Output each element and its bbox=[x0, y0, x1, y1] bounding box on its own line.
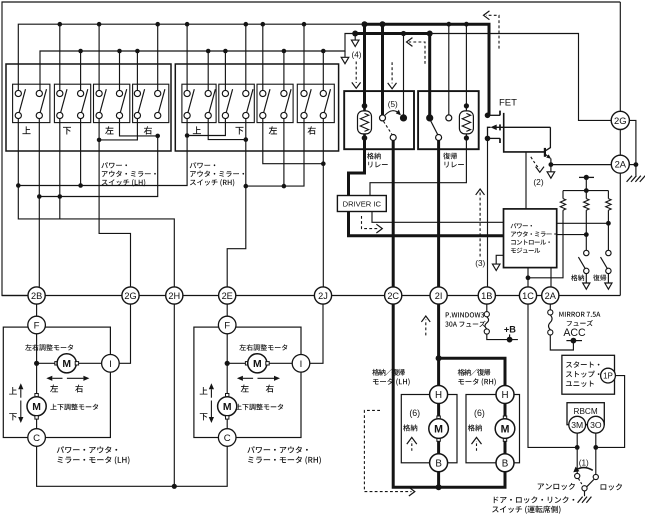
dashed arrow up at 2I bbox=[425, 320, 427, 336]
dashed arrow (4) into storage relay coil bbox=[355, 62, 357, 84]
svg-text:H: H bbox=[501, 390, 508, 401]
dashed flow arrow from DRIVER IC bbox=[362, 216, 379, 229]
label power outer mirror switch (RH) bbox=[190, 162, 216, 168]
wire: row connector down to terminal F (LH) bbox=[36, 304, 38, 316]
dashed arrow into storage relay contact bbox=[391, 62, 393, 83]
FET body arrow bbox=[496, 126, 550, 128]
wire: rail 2 drop at x=208.2 bbox=[207, 51, 209, 91]
label retract bbox=[571, 275, 584, 281]
switch cell 上 box bbox=[182, 84, 216, 122]
dashed arrow (2) bbox=[531, 157, 540, 169]
switch cell 右 box bbox=[133, 84, 169, 122]
motor M1 left terminal (LH) bbox=[55, 362, 58, 365]
svg-text:F: F bbox=[224, 321, 230, 332]
FET source node bbox=[485, 136, 491, 142]
storage relay contact NO (energized) bbox=[400, 114, 407, 121]
connector 2H (row) bbox=[166, 287, 183, 304]
svg-text:1B: 1B bbox=[481, 291, 492, 301]
door lock link switch lock contact bbox=[593, 474, 598, 479]
storage relay blade (dashed alternate position) bbox=[384, 121, 392, 134]
wire: ground link from 2G and 2A bbox=[629, 120, 636, 175]
wire: rail 2 drop at x=283.9 bbox=[283, 51, 285, 91]
switch cell 下 box bbox=[54, 84, 90, 122]
wire: rail 1 drop at x=59.8 bbox=[59, 24, 61, 90]
wire: module bottom to connector 1C bbox=[527, 268, 529, 287]
svg-text:C: C bbox=[33, 433, 40, 444]
wire: thick feed rail2 to return relay NO contact bbox=[428, 34, 431, 115]
wire: right perimeter drop to connector 2G (top) bbox=[619, 2, 621, 111]
svg-text:2I: 2I bbox=[435, 291, 443, 301]
svg-text:2B: 2B bbox=[31, 291, 42, 301]
switch contact pair 右 x=137.4 bbox=[138, 89, 144, 112]
wire: rail 1 drop at x=262.8 bbox=[262, 24, 264, 90]
resistor R3 bbox=[607, 191, 609, 199]
wire: module bottom to connector 2A (row) bbox=[550, 268, 552, 287]
wire: motor LH internal (thick) bbox=[437, 395, 440, 463]
FET channel segments bbox=[488, 114, 501, 116]
svg-text:I: I bbox=[109, 359, 112, 370]
svg-text:M: M bbox=[223, 402, 232, 413]
wire: rail 1 drop at x=304 bbox=[303, 24, 305, 90]
motor M1 right terminal (RH) bbox=[266, 362, 269, 365]
wire: riser from row bus up to connector 2A (top) bbox=[619, 173, 621, 295]
wire: FET body line to transistor collector bbox=[545, 127, 550, 151]
connector 2I (row) bbox=[430, 287, 447, 304]
connector 2E (row) bbox=[219, 287, 236, 304]
motor M2 bottom terminal (RH) bbox=[226, 416, 229, 419]
label 左 bbox=[105, 126, 113, 134]
fuse P.WINDOW3 30A bbox=[485, 317, 489, 329]
terminal F (RH) bbox=[218, 316, 236, 334]
svg-text:1P: 1P bbox=[603, 372, 613, 381]
flow marker below emitter bbox=[550, 165, 552, 172]
wire: connector 2H down to bottom bus bbox=[173, 304, 175, 486]
label power outer mirror motor (LH) bbox=[57, 446, 118, 453]
svg-text:2G: 2G bbox=[614, 115, 627, 126]
power outer mirror switch (LH) outline bbox=[6, 64, 171, 151]
wire: rail 2 thick section over retract relay bbox=[355, 32, 430, 35]
label horizontal adjust motor (LH) bbox=[25, 344, 73, 351]
wire: return relay post down to connector 2I (thick) bbox=[437, 140, 440, 287]
wire: line A / line C - UP-left + DOWN-right common to connector 2H bbox=[18, 119, 174, 287]
door lock blade (lock side) bbox=[587, 480, 594, 487]
svg-text:M: M bbox=[434, 423, 443, 435]
wire: RH DOWN-left jumper to UP-left column bbox=[187, 119, 225, 136]
door lock link switch unlock contact bbox=[575, 473, 580, 478]
svg-text:2G: 2G bbox=[124, 291, 136, 301]
switch contact pair 上 x=39.3 bbox=[40, 89, 46, 112]
storage relay coil L1 bbox=[358, 111, 372, 134]
svg-text:(3): (3) bbox=[475, 259, 485, 268]
RBCM box bbox=[567, 403, 604, 425]
switch contact pair 左 x=283.9 bbox=[285, 89, 291, 112]
wire: connector 2C down and across to motors (thick) bbox=[393, 304, 505, 487]
terminal F (LH) bbox=[28, 316, 46, 334]
dashed arrow into rail1 top right bbox=[486, 15, 499, 48]
return relay contact NO (energized) bbox=[426, 114, 433, 121]
switch cell 左 box bbox=[257, 84, 293, 122]
svg-text:H: H bbox=[435, 390, 442, 401]
label storage relay bbox=[367, 153, 381, 160]
label vertical adjust motor (LH) bbox=[50, 404, 98, 411]
wire: connector 2A row to MIRROR fuse bbox=[549, 304, 551, 310]
motor LH terminal H bbox=[430, 386, 448, 404]
motor M2 top terminal (LH) bbox=[35, 394, 38, 397]
wire: return relay coil to DRIVER IC bbox=[370, 138, 466, 196]
return position switch bbox=[606, 250, 611, 255]
left/right arrows (LH) bbox=[52, 377, 62, 379]
svg-text:FET: FET bbox=[499, 98, 517, 109]
wire: UP-right contact down to connector 2B bbox=[38, 119, 40, 287]
connector 2A (row) bbox=[542, 287, 559, 304]
wire: fuse to +B terminal bbox=[487, 334, 518, 340]
dashed flow arrow bottom left of motors bbox=[364, 410, 411, 491]
svg-text:(5): (5) bbox=[388, 100, 398, 109]
wire: rail 1 drop at x=187.1 bbox=[186, 24, 188, 90]
connector 2B (row) bbox=[28, 287, 45, 304]
connector 1P bbox=[601, 368, 616, 383]
switch cell 上 box bbox=[13, 84, 50, 122]
svg-text:+B: +B bbox=[504, 324, 516, 334]
switch cell 下 box bbox=[219, 84, 255, 122]
motor LH square terminals bbox=[437, 416, 440, 419]
svg-text:2E: 2E bbox=[222, 291, 233, 301]
return relay moving post bbox=[436, 135, 442, 141]
motor RH terminal H bbox=[496, 386, 514, 404]
dashed arrow (3) up to module area bbox=[479, 193, 481, 257]
wire: rail 1 drop at x=99.1 bbox=[98, 24, 100, 90]
terminal I (LH) bbox=[102, 355, 120, 373]
label MIRROR 7.5A fuse bbox=[559, 312, 600, 317]
wire: thick feed to storage relay NC contact bbox=[381, 24, 384, 115]
storage/return motor (LH) box bbox=[401, 395, 457, 463]
label door lock link switch bbox=[494, 496, 575, 503]
label P.WINDOW3 30A fuse bbox=[446, 312, 484, 317]
switch contact pair 下 x=225.4 bbox=[226, 89, 232, 112]
motor M1 left terminal (RH) bbox=[245, 362, 248, 365]
label power outer mirror motor (RH) bbox=[247, 446, 308, 453]
wire: rail 2 (lower common) with drop to switch UP-right bbox=[40, 34, 355, 91]
label storage/return motor (RH) bbox=[458, 369, 491, 376]
wire: connector 1C down to door lock switch bbox=[528, 304, 577, 447]
svg-text:2A: 2A bbox=[545, 291, 557, 301]
svg-text:M: M bbox=[62, 359, 71, 370]
power outer mirror switch (RH) outline bbox=[175, 64, 338, 151]
motor M2 vertical adjust (RH) bbox=[218, 397, 237, 416]
resistor R1 bbox=[562, 191, 564, 199]
svg-text:(4): (4) bbox=[351, 50, 361, 59]
svg-text:(1): (1) bbox=[579, 459, 589, 468]
return relay contact NC bbox=[446, 115, 452, 121]
wire: 3O down to lock contact bbox=[595, 433, 597, 474]
connector 2C (row) bbox=[385, 287, 402, 304]
switch contact pair 上 x=208.2 bbox=[209, 89, 215, 112]
wire: FET source to connector 1B bbox=[487, 138, 489, 287]
storage relay contact NC bbox=[380, 115, 386, 121]
label 下 bbox=[235, 127, 243, 135]
wire: thin feed rail1 to return relay NC contact bbox=[448, 24, 450, 115]
DRIVER IC box bbox=[337, 196, 386, 212]
retract position switch bbox=[584, 250, 589, 255]
switch contact pair 右 x=304 bbox=[305, 89, 311, 112]
door lock link switch pivot bbox=[582, 486, 587, 491]
wire: thin feed rail2 to storage relay NO contact bbox=[403, 34, 405, 115]
door lock switch arrow (1) bbox=[576, 468, 593, 471]
label 右 bbox=[308, 126, 316, 134]
motor M2 top terminal (RH) bbox=[226, 394, 229, 397]
wire: RH mirror-left-R drop to line A-prime bbox=[283, 119, 285, 187]
return relay box bbox=[418, 91, 479, 149]
flow marker at rail2 junction bbox=[354, 34, 356, 40]
label right (RH) bbox=[266, 385, 274, 393]
switch contact pair 右 x=157.7 bbox=[159, 89, 165, 112]
wire: RH UP/DOWN common down, elbow to connector 2E bbox=[227, 119, 246, 287]
label 上 bbox=[22, 126, 30, 134]
label control module bbox=[511, 223, 532, 229]
wire: 2G to 2A link bbox=[619, 130, 621, 156]
label return relay bbox=[443, 153, 457, 160]
wire: M1 to terminal I (RH) bbox=[269, 362, 292, 364]
svg-text:2H: 2H bbox=[168, 291, 180, 301]
svg-text:3M: 3M bbox=[571, 420, 583, 430]
label storage/return motor (LH) bbox=[372, 369, 405, 376]
wire: rail 1 drop at x=157.7 bbox=[157, 24, 159, 90]
label start stop unit bbox=[566, 361, 599, 367]
svg-text:I: I bbox=[300, 359, 303, 370]
connector 1C (row) bbox=[519, 287, 536, 304]
wire: rail 2 drop at x=80.6 bbox=[80, 51, 82, 91]
switch contact pair 左 x=262.8 bbox=[264, 89, 270, 112]
wire: spine to motor M1 (LH) bbox=[37, 362, 58, 364]
switch contact pair 下 x=80.6 bbox=[82, 89, 88, 112]
svg-text:2J: 2J bbox=[318, 291, 328, 301]
wire: FET gate net down to module bbox=[525, 152, 527, 209]
wire: DRIVER IC output to control module (thick) bbox=[349, 212, 504, 236]
door lock blade dashed (unlock side) bbox=[579, 479, 583, 486]
storage/return motor (RH) box bbox=[466, 395, 520, 463]
+B terminal bbox=[509, 334, 511, 339]
switch cell 左 box bbox=[94, 84, 130, 122]
svg-text:F: F bbox=[34, 321, 40, 332]
wire: LH motor B to bottom bus (thick) bbox=[437, 471, 440, 487]
connector 3O bbox=[587, 416, 604, 433]
wire: spine to motor M1 (RH) bbox=[227, 362, 248, 364]
power outer mirror control module box bbox=[504, 209, 557, 268]
wire: fuse to ACC terminal bbox=[550, 335, 573, 350]
label return bbox=[593, 275, 606, 281]
connector 2A (top) bbox=[611, 155, 629, 173]
wire: I elbow up to row connector (LH) bbox=[119, 304, 130, 363]
mirror motor (LH) box bbox=[3, 327, 110, 437]
wire: C (LH) to common bottom bus bbox=[37, 446, 228, 486]
motor M2 bottom terminal (LH) bbox=[35, 416, 38, 419]
wire: rail 2 drop at x=323.3 bbox=[322, 51, 324, 91]
motor LH terminal B bbox=[430, 454, 448, 472]
label lock bbox=[601, 483, 622, 490]
ground (body) bbox=[627, 176, 632, 182]
label retract LH bbox=[403, 424, 417, 431]
mirror motor (RH) box bbox=[194, 327, 301, 437]
return relay coil L2 bbox=[459, 111, 473, 134]
transistor Q1 bar bbox=[544, 148, 546, 157]
up/down arrows (LH) bbox=[20, 389, 22, 397]
storage relay box bbox=[344, 91, 414, 149]
wire: line B - right-R down to bus joining UP-right/DOWN-left bbox=[39, 136, 157, 197]
label unlock bbox=[538, 483, 575, 490]
switch contact pair 上 x=18.3 bbox=[19, 89, 25, 112]
resistor R2 bbox=[585, 191, 587, 199]
label 左 bbox=[269, 126, 277, 134]
flow marker at rail2 corner bbox=[344, 51, 346, 57]
ACC terminal bbox=[566, 340, 582, 342]
label down (LH) bbox=[9, 413, 17, 420]
fuse MIRROR 7.5A bbox=[549, 315, 553, 330]
wire: 3M down to unlock contact bbox=[576, 433, 578, 473]
storage relay moving post bbox=[390, 135, 396, 141]
switch contact pair 下 x=59.8 bbox=[61, 89, 67, 112]
wire: module pin to retract-position switch bbox=[557, 234, 587, 236]
label 下 bbox=[63, 127, 71, 135]
start stop unit box bbox=[562, 355, 615, 394]
svg-text:(2): (2) bbox=[533, 177, 543, 187]
switch cell 右 box bbox=[297, 84, 334, 122]
wire: RH left-L jumper to right-R column bbox=[263, 119, 324, 164]
terminal C (RH) bbox=[218, 429, 236, 447]
ground (door lock switch) bbox=[578, 497, 583, 503]
svg-text:DRIVER IC: DRIVER IC bbox=[343, 199, 382, 208]
wire: resistor top rail bbox=[563, 190, 608, 192]
wire: rail 2 drop at x=119.5 bbox=[119, 51, 121, 91]
wire: motor RH internal (thick) bbox=[504, 395, 507, 463]
wire: rail 1 (upper common) with drop to switch UP-left bbox=[18, 24, 364, 90]
label vertical adjust motor (RH) bbox=[235, 404, 283, 411]
dashed arrow retract RH bbox=[476, 441, 478, 451]
motor M1 horizontal adjust (LH) bbox=[57, 354, 76, 373]
svg-text:RBCM: RBCM bbox=[574, 407, 598, 416]
wire: LH DOWN-right contact drop to line A bbox=[80, 119, 82, 186]
wire: M1 to terminal I (LH) bbox=[79, 362, 102, 364]
FET drain node bbox=[485, 113, 491, 119]
connector 3M bbox=[569, 416, 586, 433]
label up (LH) bbox=[9, 387, 17, 394]
svg-text:B: B bbox=[502, 459, 509, 470]
wire: thick feed to storage relay coil bbox=[363, 24, 366, 106]
wire: storage relay post down to connector 2C (thick) bbox=[392, 140, 395, 287]
wire: connector 2I down to storage motor LH (thick) bbox=[437, 304, 440, 386]
wire: branch to storage motor RH (thick) bbox=[439, 358, 505, 386]
motor RH M bbox=[495, 419, 515, 439]
label horizontal adjust motor (RH) bbox=[239, 344, 287, 351]
wire: pivot to ground bbox=[584, 491, 586, 496]
switch contact pair 左 x=119.5 bbox=[120, 89, 126, 112]
svg-text:(6): (6) bbox=[474, 408, 485, 418]
label right (LH) bbox=[75, 385, 83, 393]
wire: rail 2 drop at x=137.4 bbox=[136, 51, 138, 91]
wire: I elbow up to row connector (RH) bbox=[310, 304, 323, 363]
svg-text:1C: 1C bbox=[522, 291, 534, 301]
wire: LH left-L contact down, elbow to connector 2G bbox=[99, 119, 130, 287]
wire: connector 1B to P.WINDOW3 fuse bbox=[486, 304, 488, 312]
wire: rail 2 drop at x=225.4 bbox=[224, 51, 226, 91]
label left (RH) bbox=[241, 385, 249, 393]
storage relay actuation arrow (5) bbox=[385, 111, 400, 115]
motor M1 right terminal (LH) bbox=[75, 362, 78, 365]
wire: storage relay coil to DRIVER IC (thick) bbox=[349, 138, 365, 196]
svg-text:(6): (6) bbox=[409, 408, 420, 418]
svg-text:B: B bbox=[435, 459, 442, 470]
switch contact pair 右 x=323.3 bbox=[324, 89, 330, 112]
motor RH terminal B bbox=[496, 454, 514, 472]
transistor Q1 emitter with arrow bbox=[545, 154, 547, 156]
dashed arrow retract LH bbox=[411, 441, 413, 451]
svg-text:M: M bbox=[253, 359, 262, 370]
switch contact pair 上 x=187.1 bbox=[188, 89, 194, 112]
wire: rail 1 thick section to relays and FET drain bbox=[365, 24, 490, 115]
wire: rail 1 drop at x=245.8 bbox=[245, 24, 247, 90]
label power outer mirror switch (LH) bbox=[101, 162, 127, 168]
wire: DOWN-left contact stub down to line C bbox=[59, 119, 61, 219]
svg-text:3O: 3O bbox=[590, 420, 602, 430]
wire: thin feed rail1 to return relay coil bbox=[465, 24, 467, 106]
wire: RH right-R down to connector 2J bbox=[322, 119, 324, 287]
switch contact pair 下 x=245.8 bbox=[247, 89, 253, 112]
connector 2G (row) bbox=[122, 287, 139, 304]
svg-text:M: M bbox=[32, 402, 41, 413]
wire: F to C spine (RH) bbox=[226, 334, 228, 429]
wire: F to C spine (LH) bbox=[36, 334, 38, 429]
svg-text:M: M bbox=[501, 423, 510, 435]
wire: line A' joining 2E net to mirror-left/right-L contacts bbox=[246, 119, 304, 187]
svg-text:C: C bbox=[224, 433, 231, 444]
wire: LH mirror-left net jumper to right-L contact bbox=[99, 119, 137, 140]
switch contact pair 左 x=99.1 bbox=[100, 89, 106, 112]
wire: row connector down to terminal F (RH) bbox=[226, 304, 228, 316]
label retract RH bbox=[468, 424, 482, 431]
wire: DRIVER IC output to control module (thin) bbox=[372, 212, 504, 223]
wire: battery feed, left perimeter from top rail to 2B bbox=[2, 2, 620, 296]
up/down arrows (RH) bbox=[210, 389, 212, 397]
wire: module under-route to sense resistor bbox=[528, 210, 563, 278]
return relay blade bbox=[431, 121, 438, 134]
terminal C (LH) bbox=[28, 429, 46, 447]
label 右 bbox=[144, 126, 152, 134]
wire: rail 2 thin section to connector 2G (top) bbox=[430, 34, 611, 121]
svg-text:2C: 2C bbox=[387, 291, 399, 301]
connector 1B (row) bbox=[478, 287, 495, 304]
power feed bar for sense resistors bbox=[579, 176, 594, 178]
wire: emitter to connector 2A (top) bbox=[551, 159, 611, 165]
module left ground stub with flow marker bbox=[496, 255, 503, 263]
motor RH square terminals bbox=[503, 416, 506, 419]
FET gate bar bbox=[504, 113, 545, 152]
label down (RH) bbox=[200, 413, 208, 420]
label up (RH) bbox=[200, 387, 208, 394]
motor M1 horizontal adjust (RH) bbox=[248, 354, 267, 373]
svg-text:2A: 2A bbox=[615, 159, 627, 170]
terminal I (RH) bbox=[292, 355, 310, 373]
wire: RH UP-right jumper to DOWN-right column bbox=[208, 119, 246, 140]
connector 2J (row) bbox=[314, 287, 331, 304]
svg-text:ACC: ACC bbox=[563, 327, 586, 339]
label left (LH) bbox=[50, 385, 58, 393]
label 上 bbox=[193, 126, 201, 134]
left/right arrows (RH) bbox=[243, 377, 253, 379]
wire: connector row bus bbox=[2, 295, 620, 297]
wire: LH mirror-right net (left-R to right-R jumper) bbox=[120, 119, 158, 136]
wire: 1P to door lock switch net bbox=[596, 376, 625, 448]
dashed arrow into storage relay NO wire bbox=[409, 42, 425, 64]
motor LH M bbox=[429, 419, 449, 439]
